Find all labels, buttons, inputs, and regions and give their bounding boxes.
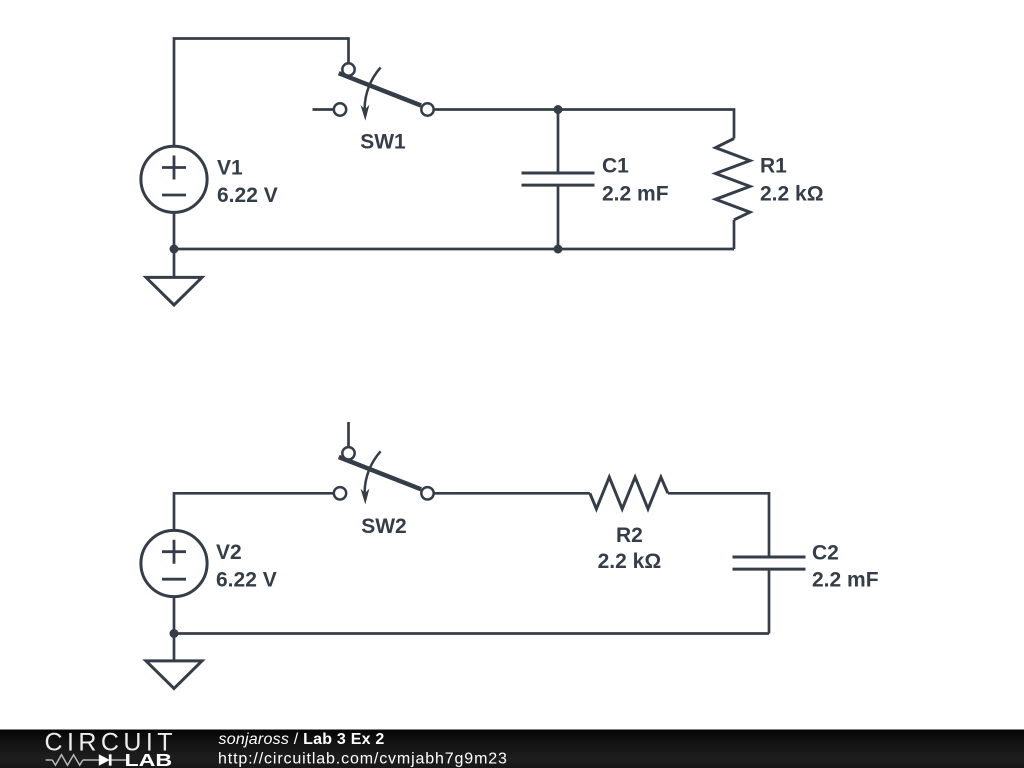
switch SW1 bbox=[334, 63, 434, 120]
node junction V2 bottom bbox=[170, 629, 179, 638]
wire SW2 to R2 bbox=[435, 492, 590, 495]
svg-text:2.2 mF: 2.2 mF bbox=[602, 183, 669, 206]
wire C1 top lead bbox=[557, 110, 560, 174]
wire C2 bottom lead bbox=[768, 569, 771, 633]
wire R1 bottom lead bbox=[733, 220, 736, 249]
logo resistor-diode glyph bbox=[46, 755, 126, 765]
svg-text:2.2 mF: 2.2 mF bbox=[812, 569, 879, 592]
node junction V1 bottom bbox=[170, 245, 179, 254]
wire SW2 top stub bbox=[347, 422, 350, 447]
svg-text:6.22 V: 6.22 V bbox=[216, 568, 277, 591]
svg-text:2.2 kΩ: 2.2 kΩ bbox=[760, 183, 824, 206]
voltage source V2 bbox=[141, 530, 207, 596]
svg-text:C1: C1 bbox=[602, 155, 629, 178]
resistor R2 bbox=[590, 477, 668, 509]
wire SW1 left stub bbox=[313, 108, 334, 111]
svg-text:SW1: SW1 bbox=[360, 131, 406, 154]
voltage source V1 bbox=[141, 146, 207, 212]
node junction top C1 bbox=[554, 105, 563, 114]
wire V2 bottom to ground bbox=[173, 597, 176, 662]
svg-text:http://circuitlab.com/cvmjabh7: http://circuitlab.com/cvmjabh7g9m23 bbox=[218, 751, 508, 768]
wire V2 top rail to SW2 bbox=[174, 493, 333, 530]
node junction C1 bottom bbox=[554, 245, 563, 254]
wire R2 to C2 bbox=[668, 493, 769, 557]
svg-text:V1: V1 bbox=[217, 157, 243, 180]
svg-text:2.2 kΩ: 2.2 kΩ bbox=[598, 550, 662, 573]
svg-text:R1: R1 bbox=[760, 155, 787, 178]
resistor R1 bbox=[716, 139, 751, 220]
capacitor C2 bbox=[733, 557, 806, 569]
wire SW1 to C1 to R1 top rail bbox=[435, 110, 735, 139]
wire bottom rail circuit 2 bbox=[174, 632, 769, 635]
footer bar bbox=[0, 730, 1024, 768]
wire V1 bottom to ground bbox=[173, 212, 176, 277]
ground GND2 bbox=[146, 661, 202, 689]
svg-text:SW2: SW2 bbox=[361, 515, 407, 538]
wire bottom rail circuit 1 bbox=[174, 248, 734, 251]
svg-text:sonjaross / Lab 3 Ex 2: sonjaross / Lab 3 Ex 2 bbox=[219, 731, 385, 748]
svg-text:LAB: LAB bbox=[125, 750, 173, 768]
switch SW2 bbox=[334, 447, 434, 504]
svg-text:R2: R2 bbox=[616, 524, 643, 547]
wire C1 bottom lead bbox=[557, 185, 560, 249]
svg-text:C2: C2 bbox=[812, 542, 839, 565]
capacitor C1 bbox=[522, 173, 595, 185]
ground GND1 bbox=[146, 277, 202, 305]
wire V1 top to SW1 throw bbox=[174, 39, 349, 147]
svg-text:6.22 V: 6.22 V bbox=[217, 184, 278, 207]
svg-text:V2: V2 bbox=[216, 541, 242, 564]
